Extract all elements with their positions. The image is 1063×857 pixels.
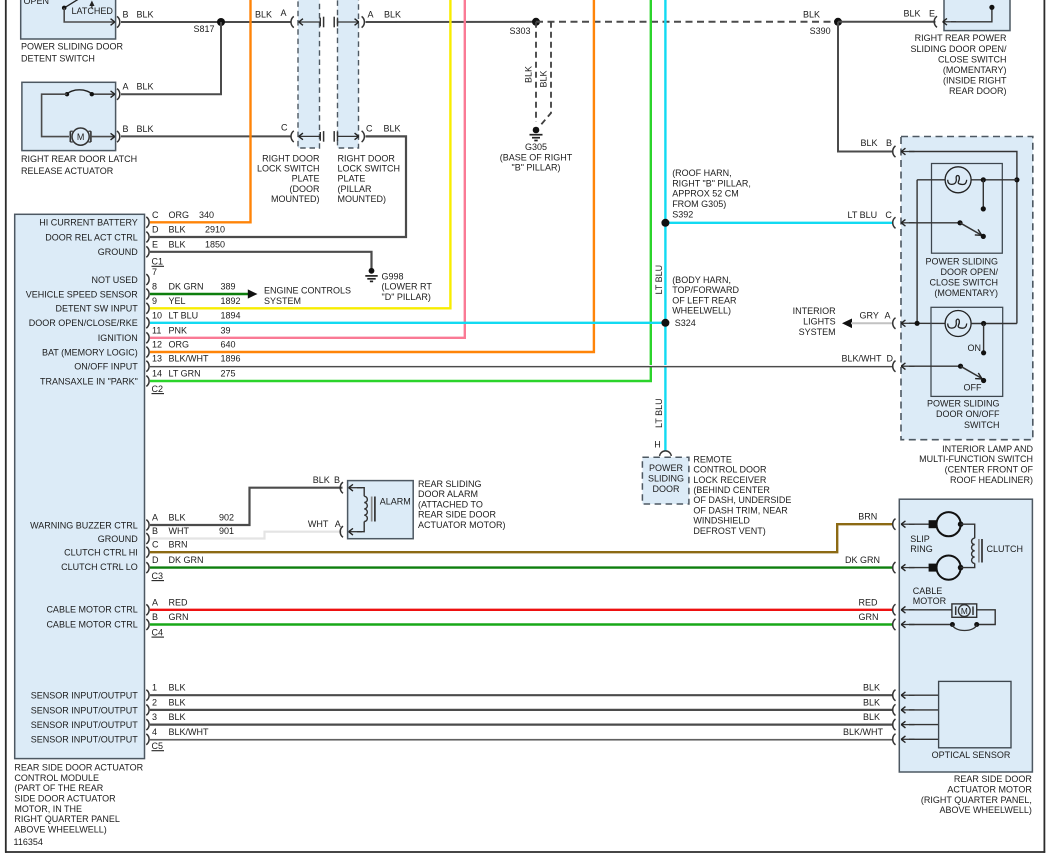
module pin 13 row y=366.2 <box>146 361 149 372</box>
svg-text:BLK: BLK <box>137 10 154 20</box>
cable motor connector RED <box>893 604 896 615</box>
svg-text:PLATE: PLATE <box>338 174 366 184</box>
wire GRN module pin B to cable motor <box>150 623 894 625</box>
svg-text:RIGHT DOOR: RIGHT DOOR <box>338 153 396 163</box>
svg-text:BLK: BLK <box>384 124 401 134</box>
svg-text:B: B <box>123 124 129 134</box>
svg-text:B: B <box>123 10 129 20</box>
svg-text:8: 8 <box>152 282 157 292</box>
svg-text:C: C <box>152 540 159 550</box>
switch S2 right rear power sliding door open/close switch box <box>944 0 1010 31</box>
splice S392 <box>661 219 669 227</box>
svg-text:S390: S390 <box>810 26 831 36</box>
svg-text:(CENTER FRONT OF: (CENTER FRONT OF <box>945 465 1034 475</box>
ground G305 base of right B pillar <box>533 127 540 134</box>
svg-text:REAR SIDE DOOR ACTUATOR: REAR SIDE DOOR ACTUATOR <box>14 762 143 772</box>
module pin 12 row y=352.0 <box>146 347 149 358</box>
switch box on/off <box>931 307 1003 396</box>
svg-text:CABLE MOTOR CTRL: CABLE MOTOR CTRL <box>46 619 137 629</box>
svg-text:CLOSE SWITCH: CLOSE SWITCH <box>929 278 998 288</box>
svg-text:DEFROST VENT): DEFROST VENT) <box>693 526 765 536</box>
wire GRY interior lights to pin A <box>851 322 894 324</box>
svg-text:MULTI-FUNCTION SWITCH: MULTI-FUNCTION SWITCH <box>919 454 1033 464</box>
svg-text:LOCK SWITCH: LOCK SWITCH <box>257 164 320 174</box>
svg-text:1850: 1850 <box>205 239 225 249</box>
contact stem open/close switch <box>982 180 984 209</box>
svg-text:RED: RED <box>859 597 879 607</box>
momentary switch blade <box>909 222 960 224</box>
svg-text:OF DASH, UNDERSIDE: OF DASH, UNDERSIDE <box>693 495 791 505</box>
module pin 1 row y=695.2 <box>146 690 149 701</box>
svg-text:(MOMENTARY): (MOMENTARY) <box>943 65 1007 75</box>
svg-text:G998: G998 <box>382 271 404 281</box>
svg-text:2: 2 <box>152 697 157 707</box>
svg-text:WHT: WHT <box>308 519 329 529</box>
actuator internal wire loop <box>42 94 69 136</box>
svg-text:BLK: BLK <box>863 712 880 722</box>
pin C connector open/close switch <box>893 217 896 228</box>
svg-text:YEL: YEL <box>169 296 186 306</box>
alarm core bars <box>371 497 373 522</box>
svg-text:ON/OFF INPUT: ON/OFF INPUT <box>74 362 138 372</box>
brush arc under cable motor <box>950 622 955 627</box>
wire BLK from S817 down to latch actuator pin A <box>121 22 221 94</box>
wire slip ring 1 to clutch coil <box>961 524 975 538</box>
svg-text:RED: RED <box>169 597 189 607</box>
svg-text:CONTROL MODULE: CONTROL MODULE <box>14 773 99 783</box>
right rear switch internal wire <box>951 7 992 21</box>
wire LT BLU vertical through S392 S324 to connector H <box>664 0 666 451</box>
splice S817 <box>217 18 225 26</box>
module pin 11 row y=337.8 <box>146 332 149 343</box>
svg-text:SIDE DOOR ACTUATOR: SIDE DOOR ACTUATOR <box>14 793 116 803</box>
wire detent switch internal to pin B <box>64 8 114 22</box>
svg-text:A: A <box>152 597 158 607</box>
module pin B row y=538.5 <box>146 533 149 544</box>
svg-text:B: B <box>152 612 158 622</box>
svg-text:OPEN: OPEN <box>24 0 50 6</box>
wire BLK S390 down to interior lamp assembly pin B <box>838 22 894 152</box>
svg-text:TOP/FORWARD: TOP/FORWARD <box>672 285 739 295</box>
svg-text:LT BLU: LT BLU <box>654 398 664 428</box>
svg-text:E: E <box>929 9 935 19</box>
wire LT BLU 1894 module pin 10 to S324 <box>150 322 665 324</box>
module pin C row y=222.3 <box>146 217 149 228</box>
svg-text:D: D <box>152 555 159 565</box>
svg-text:CLUTCH CTRL LO: CLUTCH CTRL LO <box>61 562 138 572</box>
module pin 2 row y=709.9 <box>146 705 149 716</box>
svg-text:B: B <box>334 475 340 485</box>
connector right door lock switch plate (door mounted) strip <box>298 0 320 148</box>
svg-text:A: A <box>885 311 891 321</box>
svg-text:11: 11 <box>152 325 161 335</box>
svg-text:902: 902 <box>219 513 234 523</box>
module pin 4 row y=739.3 <box>146 734 149 745</box>
svg-text:GROUND: GROUND <box>98 534 138 544</box>
wire LT GRN 275 module pin 14 to top <box>150 0 651 381</box>
wire BLK detent pin B to S817 to lock switch plate <box>121 21 292 23</box>
svg-text:LT BLU: LT BLU <box>848 210 878 220</box>
svg-text:ABOVE WHEELWELL): ABOVE WHEELWELL) <box>940 805 1032 815</box>
svg-text:RIGHT REAR POWER: RIGHT REAR POWER <box>915 33 1007 43</box>
module pin D row y=567.6 <box>146 562 149 573</box>
svg-text:(BODY HARN,: (BODY HARN, <box>672 275 731 285</box>
wire BLK sensor 3 <box>150 723 894 725</box>
wire BLK 902 module pin A to alarm pin B <box>150 488 343 525</box>
svg-text:9: 9 <box>152 296 157 306</box>
lamp L1 open/close switch <box>917 179 945 181</box>
module pin 7 row y=279.5 <box>146 274 149 285</box>
svg-text:901: 901 <box>219 526 234 536</box>
alarm B1 rear sliding door alarm box <box>348 481 414 539</box>
svg-text:OF LEFT REAR: OF LEFT REAR <box>672 295 737 305</box>
slip ring 1 <box>909 523 929 525</box>
svg-text:13: 13 <box>152 354 162 364</box>
receiver U3 remote control door lock receiver dashed box <box>642 457 689 504</box>
svg-text:RING: RING <box>910 544 933 554</box>
svg-text:REAR DOOR): REAR DOOR) <box>949 86 1007 96</box>
optical sensor connector 1 <box>893 690 896 701</box>
svg-text:RELEASE ACTUATOR: RELEASE ACTUATOR <box>21 166 114 176</box>
svg-text:M: M <box>77 132 85 142</box>
svg-text:C2: C2 <box>152 384 164 394</box>
splice S303 <box>532 18 540 26</box>
pin A of latch release actuator <box>117 89 120 100</box>
svg-text:BLK: BLK <box>861 138 878 148</box>
svg-text:REMOTE: REMOTE <box>693 454 732 464</box>
wire ORG 640 module pin 12 to top <box>150 0 594 352</box>
dashed ground wire 2 from S303 to G305 <box>539 22 551 127</box>
svg-text:BLK: BLK <box>384 10 401 20</box>
module pin 14 row y=381.0 <box>146 376 149 387</box>
module pin 3 row y=724.6 <box>146 719 149 730</box>
svg-text:A: A <box>335 519 341 529</box>
svg-text:CLUTCH CTRL HI: CLUTCH CTRL HI <box>64 547 138 557</box>
svg-text:LIGHTS: LIGHTS <box>803 317 836 327</box>
cable motor M symbol <box>909 609 952 611</box>
svg-text:(PART OF THE REAR: (PART OF THE REAR <box>14 783 103 793</box>
svg-text:BLK: BLK <box>169 239 186 249</box>
wire PNK 39 module pin 11 to top <box>150 0 465 338</box>
cable motor connector GRN <box>893 619 896 630</box>
svg-text:REAR SIDE DOOR: REAR SIDE DOOR <box>954 774 1033 784</box>
svg-text:C3: C3 <box>152 571 164 581</box>
svg-text:1896: 1896 <box>221 354 241 364</box>
pin E connector of right rear switch <box>934 16 937 27</box>
motor M symbol of latch release actuator <box>72 128 89 145</box>
switch box open/close momentary <box>932 164 1003 254</box>
svg-text:1894: 1894 <box>221 310 241 320</box>
dashed ground wire 1 from S303 to G305 <box>535 22 537 122</box>
pin B of latch release actuator <box>117 131 120 142</box>
wire BLK 1850 module pin E to ground G998 <box>150 252 372 268</box>
connector right door lock switch plate (pillar mounted) strip <box>338 0 359 148</box>
svg-text:116354: 116354 <box>14 837 43 847</box>
assembly U2 interior lamp and multi-function switch dashed box <box>901 137 1033 440</box>
svg-text:SENSOR INPUT/OUTPUT: SENSOR INPUT/OUTPUT <box>31 705 139 715</box>
svg-text:LOCK RECEIVER: LOCK RECEIVER <box>693 475 767 485</box>
wire BLK S390 to open/close switch pin E <box>838 21 936 23</box>
svg-text:BLK: BLK <box>539 70 549 87</box>
svg-text:DOOR OPEN/: DOOR OPEN/ <box>940 267 998 277</box>
svg-text:DETENT SW INPUT: DETENT SW INPUT <box>55 304 138 314</box>
svg-text:A: A <box>368 10 374 20</box>
svg-text:SENSOR INPUT/OUTPUT: SENSOR INPUT/OUTPUT <box>31 735 139 745</box>
actuator M1 right rear door latch release actuator box <box>22 82 116 150</box>
svg-text:D: D <box>152 225 159 235</box>
svg-text:MOUNTED): MOUNTED) <box>271 194 320 204</box>
svg-text:BLK: BLK <box>863 697 880 707</box>
svg-text:BLK/WHT: BLK/WHT <box>169 354 210 364</box>
svg-text:OF DASH TRIM, NEAR: OF DASH TRIM, NEAR <box>693 505 788 515</box>
wire RED module pin A to cable motor <box>150 609 894 611</box>
svg-text:(DOOR: (DOOR <box>290 184 320 194</box>
pin D connector on/off switch <box>893 361 896 372</box>
wire LT BLU S392 to open/close switch pin C <box>665 222 893 224</box>
clutch coil <box>972 538 975 563</box>
svg-text:340: 340 <box>199 210 214 220</box>
svg-text:BAT (MEMORY LOGIC): BAT (MEMORY LOGIC) <box>42 347 138 357</box>
svg-text:REAR SLIDING: REAR SLIDING <box>418 479 482 489</box>
GRY row internal wire <box>909 322 945 324</box>
svg-text:C5: C5 <box>152 741 164 751</box>
svg-text:POWER SLIDING: POWER SLIDING <box>927 398 1000 408</box>
pin A connector of alarm <box>340 526 343 537</box>
svg-text:S324: S324 <box>675 318 696 328</box>
svg-text:ALARM: ALARM <box>380 497 411 507</box>
slip ring connector BRN <box>893 519 896 530</box>
left rail lamp row to GRY row <box>916 180 918 323</box>
svg-text:E: E <box>152 239 158 249</box>
svg-text:GROUND: GROUND <box>98 247 138 257</box>
svg-text:DETENT SWITCH: DETENT SWITCH <box>21 54 95 64</box>
svg-text:ORG: ORG <box>169 210 190 220</box>
svg-text:DOOR ON/OFF: DOOR ON/OFF <box>936 409 1000 419</box>
svg-text:ACTUATOR MOTOR: ACTUATOR MOTOR <box>947 785 1032 795</box>
optical sensor connector 2 <box>893 704 896 715</box>
svg-text:GRY: GRY <box>860 311 879 321</box>
pin B of detent switch <box>117 16 120 27</box>
svg-text:ON: ON <box>968 343 982 353</box>
svg-text:SYSTEM: SYSTEM <box>264 296 301 306</box>
motor M2 rear side door actuator motor box <box>899 499 1032 772</box>
pin A connector interior lamp assembly <box>893 318 896 329</box>
svg-text:SENSOR INPUT/OUTPUT: SENSOR INPUT/OUTPUT <box>31 720 139 730</box>
svg-text:RIGHT REAR DOOR LATCH: RIGHT REAR DOOR LATCH <box>21 154 137 164</box>
svg-text:3: 3 <box>152 712 157 722</box>
module pin A row y=609.8 <box>146 604 149 615</box>
wire BLK latch actuator pin B to lock switch plate pin C <box>121 135 292 137</box>
svg-text:NOT USED: NOT USED <box>91 275 138 285</box>
svg-text:CONTROL DOOR: CONTROL DOOR <box>693 465 767 475</box>
svg-text:VEHICLE SPEED SENSOR: VEHICLE SPEED SENSOR <box>26 289 139 299</box>
svg-text:OFF: OFF <box>964 382 982 392</box>
svg-text:INTERIOR: INTERIOR <box>793 306 837 316</box>
svg-text:POWER SLIDING: POWER SLIDING <box>925 256 998 266</box>
svg-text:BLK: BLK <box>137 82 154 92</box>
svg-text:WINDSHIELD: WINDSHIELD <box>693 516 750 526</box>
svg-text:M: M <box>961 606 968 616</box>
module pin 9 row y=308.3 <box>146 303 149 314</box>
wire BLK sensor 2 <box>150 709 894 711</box>
svg-text:14: 14 <box>152 369 162 379</box>
module pin 10 row y=322.8 <box>146 317 149 328</box>
svg-text:S303: S303 <box>510 26 531 36</box>
svg-text:ACTUATOR MOTOR): ACTUATOR MOTOR) <box>418 520 506 530</box>
svg-text:BLK: BLK <box>169 712 186 722</box>
svg-text:INTERIOR LAMP AND: INTERIOR LAMP AND <box>942 444 1033 454</box>
svg-text:12: 12 <box>152 340 162 350</box>
wire BLK sensor 1 <box>150 694 894 696</box>
svg-text:7: 7 <box>152 267 157 277</box>
svg-text:WARNING BUZZER CTRL: WARNING BUZZER CTRL <box>30 520 138 530</box>
detent switch contacts <box>64 0 79 8</box>
pin B connector of interior lamp assembly <box>893 146 896 157</box>
switch S1 power sliding door detent switch box <box>21 0 116 39</box>
svg-text:(MOMENTARY): (MOMENTARY) <box>934 288 998 298</box>
svg-text:BLK/WHT: BLK/WHT <box>843 727 884 737</box>
svg-text:1: 1 <box>152 683 157 693</box>
clutch plates <box>978 539 980 563</box>
svg-text:A: A <box>123 82 129 92</box>
svg-text:LT BLU: LT BLU <box>654 265 664 295</box>
svg-text:(BASE OF RIGHT: (BASE OF RIGHT <box>500 152 573 162</box>
svg-text:GRN: GRN <box>859 612 879 622</box>
svg-text:OPTICAL SENSOR: OPTICAL SENSOR <box>932 750 1011 760</box>
svg-text:GRN: GRN <box>169 612 189 622</box>
wire BLK/WHT sensor 4 <box>150 738 894 740</box>
svg-text:(LOWER RT: (LOWER RT <box>382 282 433 292</box>
svg-text:BLK: BLK <box>863 683 880 693</box>
wire YEL 1892 module pin 9 to top <box>150 0 450 308</box>
svg-text:2910: 2910 <box>205 225 225 235</box>
svg-text:S817: S817 <box>194 24 215 34</box>
svg-text:ROOF HEADLINER): ROOF HEADLINER) <box>950 475 1033 485</box>
on/off switch blade <box>909 365 961 367</box>
svg-text:DK GRN: DK GRN <box>845 555 880 565</box>
svg-text:BLK: BLK <box>169 697 186 707</box>
svg-text:G305: G305 <box>525 142 547 152</box>
optical sensor box <box>939 681 1011 747</box>
svg-text:PNK: PNK <box>169 325 188 335</box>
svg-text:4: 4 <box>152 727 157 737</box>
svg-text:BLK/WHT: BLK/WHT <box>841 354 882 364</box>
svg-text:LT GRN: LT GRN <box>169 369 201 379</box>
svg-text:MOTOR: MOTOR <box>913 596 947 606</box>
internal wire pin B to right rail <box>909 152 1017 324</box>
svg-text:(BEHIND CENTER: (BEHIND CENTER <box>693 485 770 495</box>
svg-text:SLIDING DOOR OPEN/: SLIDING DOOR OPEN/ <box>910 44 1007 54</box>
module pin C row y=552.2 <box>146 547 149 558</box>
svg-text:BLK: BLK <box>313 475 330 485</box>
svg-text:LT BLU: LT BLU <box>169 310 199 320</box>
svg-text:(ATTACHED TO: (ATTACHED TO <box>418 499 483 509</box>
module pin A row y=525.0 <box>146 520 149 531</box>
wire DK GRN module pin D to slip ring <box>150 566 894 568</box>
svg-text:B: B <box>152 526 158 536</box>
wire WHT 901 module pin B to alarm pin A <box>150 532 343 539</box>
svg-text:CABLE MOTOR CTRL: CABLE MOTOR CTRL <box>46 605 137 615</box>
svg-text:39: 39 <box>221 325 231 335</box>
svg-text:WHT: WHT <box>169 526 190 536</box>
ON contact stem <box>983 324 985 353</box>
svg-text:REAR SIDE DOOR: REAR SIDE DOOR <box>418 510 497 520</box>
svg-text:SYSTEM: SYSTEM <box>799 327 836 337</box>
svg-text:DK GRN: DK GRN <box>169 555 204 565</box>
svg-text:BLK: BLK <box>169 513 186 523</box>
wire BLK 2910 lock switch plate pin C to module pin D <box>150 136 406 237</box>
svg-text:C: C <box>281 123 288 133</box>
svg-text:275: 275 <box>221 369 236 379</box>
svg-text:HI CURRENT BATTERY: HI CURRENT BATTERY <box>39 218 138 228</box>
svg-text:CLOSE SWITCH: CLOSE SWITCH <box>938 54 1007 64</box>
svg-text:RIGHT DOOR: RIGHT DOOR <box>262 153 320 163</box>
svg-text:BLK: BLK <box>904 9 921 19</box>
svg-text:BLK: BLK <box>524 66 534 83</box>
svg-text:FROM G305): FROM G305) <box>672 199 726 209</box>
svg-text:RIGHT QUARTER PANEL: RIGHT QUARTER PANEL <box>14 814 120 824</box>
wire DK GRN 389 module pin 8 to engine controls system <box>150 293 249 295</box>
svg-text:S392: S392 <box>672 210 693 220</box>
svg-text:DK GRN: DK GRN <box>169 282 204 292</box>
svg-text:C1: C1 <box>152 257 164 267</box>
module U1 rear side door actuator control module box <box>15 214 145 758</box>
splice S324 <box>661 319 669 327</box>
svg-text:POWER: POWER <box>649 463 684 473</box>
slip ring connector DK GRN <box>893 562 896 573</box>
module pin D row y=237.0 <box>146 232 149 243</box>
svg-text:640: 640 <box>221 340 236 350</box>
actuator internal switch arc <box>92 93 114 95</box>
module pin 8 row y=294.0 <box>146 289 149 300</box>
svg-text:MOUNTED): MOUNTED) <box>338 194 387 204</box>
svg-text:MOTOR, IN THE: MOTOR, IN THE <box>14 804 82 814</box>
svg-text:C: C <box>366 124 373 134</box>
svg-text:"D" PILLAR): "D" PILLAR) <box>382 292 431 302</box>
svg-text:B: B <box>886 138 892 148</box>
svg-text:IGNITION: IGNITION <box>98 333 138 343</box>
svg-text:DOOR ALARM: DOOR ALARM <box>418 489 478 499</box>
junction dot on rail <box>1014 177 1019 182</box>
wire BLK/WHT 1896 module pin 13 to on/off switch pin D <box>150 365 894 367</box>
svg-text:BLK: BLK <box>137 124 154 134</box>
svg-text:RIGHT "B" PILLAR,: RIGHT "B" PILLAR, <box>672 178 751 188</box>
svg-text:ORG: ORG <box>169 340 190 350</box>
svg-text:(INSIDE RIGHT: (INSIDE RIGHT <box>943 76 1007 86</box>
svg-text:POWER SLIDING DOOR: POWER SLIDING DOOR <box>21 41 124 51</box>
svg-text:SENSOR INPUT/OUTPUT: SENSOR INPUT/OUTPUT <box>31 690 139 700</box>
ground G998 lower right D pillar <box>369 268 375 274</box>
alarm coil <box>357 488 364 497</box>
svg-text:DOOR REL ACT CTRL: DOOR REL ACT CTRL <box>45 232 138 242</box>
svg-text:389: 389 <box>221 282 236 292</box>
svg-text:"B" PILLAR): "B" PILLAR) <box>512 163 561 173</box>
svg-text:1892: 1892 <box>221 296 241 306</box>
svg-text:A: A <box>281 8 287 18</box>
svg-text:H: H <box>654 440 661 450</box>
inline connector pair pins A-A <box>291 16 294 27</box>
svg-text:PLATE: PLATE <box>292 174 320 184</box>
svg-text:C: C <box>152 210 159 220</box>
svg-text:SLIP: SLIP <box>910 534 930 544</box>
pin B connector of alarm <box>340 482 343 493</box>
svg-text:BLK/WHT: BLK/WHT <box>169 727 210 737</box>
svg-text:BRN: BRN <box>858 512 877 522</box>
svg-text:CLUTCH: CLUTCH <box>987 544 1024 554</box>
svg-text:DOOR OPEN/CLOSE/RKE: DOOR OPEN/CLOSE/RKE <box>29 318 138 328</box>
inline connector pair pins C-C <box>291 131 294 142</box>
wire BLK lock switch plate pin A to splice S303 <box>366 21 537 23</box>
